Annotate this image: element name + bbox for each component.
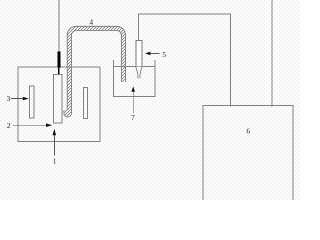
svg-text:4: 4 [89,17,93,26]
arrow 2 [13,124,47,126]
arrow 3 [11,98,24,100]
thick black lead bar [57,51,60,67]
box 6 [203,105,293,202]
middle vessel (open top) [113,60,155,97]
electrode (right plate) [84,88,88,119]
svg-text:7: 7 [131,113,135,122]
arrow 1 [53,135,55,155]
arrow 5 [149,52,159,54]
svg-text:1: 1 [53,156,57,165]
electrode (left plate) [29,86,34,118]
dropper 5 cone [136,67,142,79]
pipe 4 (hatched gas tube: J-hook in tank, arch over, down into vessel) [66,28,123,114]
arrow 7 [132,90,134,114]
svg-text:2: 2 [7,121,11,130]
lead wire above center electrode [58,0,60,52]
right inlet line into box 6 [271,0,273,107]
checkerboard page background [0,0,300,200]
svg-text:3: 3 [7,94,11,103]
svg-text:5: 5 [162,50,166,59]
electrode (center plate) [54,75,62,124]
dropper feed pipe (up, across, down to box 6) [139,14,231,107]
liquid level line [113,65,155,67]
svg-text:6: 6 [246,127,250,136]
electrolysis tank (left) [18,67,100,142]
dropper 5 body [136,41,142,67]
